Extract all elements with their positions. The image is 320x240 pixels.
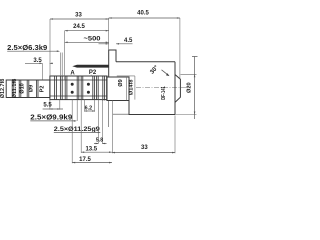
- svg-text:DF-141: DF-141: [161, 86, 167, 100]
- svg-text:40.5: 40.5: [137, 11, 149, 17]
- svg-text:24.5: 24.5: [73, 24, 85, 30]
- step rings: [103, 76, 107, 100]
- svg-text:Ø9: Ø9: [29, 85, 35, 92]
- block body: [129, 62, 175, 115]
- groove 7: [65, 76, 67, 100]
- svg-text:5.5: 5.5: [43, 103, 52, 109]
- svg-text:3.5: 3.5: [33, 58, 42, 64]
- post: [109, 50, 116, 77]
- extension line post left: [108, 18, 110, 50]
- groove 10: [93, 76, 95, 100]
- svg-text:33: 33: [75, 12, 82, 18]
- groove 2: [19, 80, 21, 98]
- extension groove leader: [76, 100, 78, 121]
- dimension 33 bottom: [174, 116, 176, 154]
- svg-text:2.5×Ø6.3k9: 2.5×Ø6.3k9: [7, 45, 47, 52]
- bracket mid diameters: [117, 75, 135, 77]
- svg-text:A: A: [70, 71, 75, 77]
- svg-text:Ø14f8: Ø14f8: [128, 80, 134, 96]
- block top line: [116, 61, 175, 63]
- dimension 24.5: [65, 30, 109, 32]
- groove 9: [81, 76, 83, 100]
- svg-text:33: 33: [141, 145, 148, 151]
- svg-text:~500: ~500: [84, 37, 102, 43]
- svg-text:Ø12.7f8: Ø12.7f8: [0, 79, 6, 99]
- dimension 40.5 top: [109, 17, 180, 19]
- dimension ~500: [65, 41, 109, 43]
- svg-text:Ø10: Ø10: [20, 83, 26, 94]
- dimension 6.2: [85, 100, 95, 112]
- svg-text:P2: P2: [40, 86, 46, 93]
- svg-text:P2: P2: [89, 70, 97, 76]
- boss chamfered: [175, 75, 180, 103]
- groove 5: [55, 76, 57, 100]
- groove 6: [60, 76, 62, 100]
- spring force arrow bar: [72, 65, 108, 68]
- dimension 17.5: [71, 100, 73, 164]
- svg-text:2.5×Ø9.9k9: 2.5×Ø9.9k9: [30, 115, 72, 122]
- cross hole pair 1: [71, 83, 74, 86]
- cross hole pair 2: [87, 83, 90, 86]
- shaft outline left section: [6, 80, 50, 98]
- dimension 5.5: [50, 100, 60, 110]
- svg-text:30°: 30°: [149, 64, 160, 75]
- centerline: [136, 87, 190, 89]
- groove 1: [12, 80, 14, 98]
- svg-text:5.8: 5.8: [96, 137, 103, 143]
- bottom lip line: [108, 100, 129, 127]
- groove 8: [77, 76, 79, 100]
- svg-text:Ø20: Ø20: [187, 82, 193, 93]
- dimension dia 20: [176, 74, 197, 114]
- dimension 13.5: [81, 100, 112, 154]
- svg-text:17.5: 17.5: [79, 157, 91, 163]
- extension lines top-left: [42, 53, 62, 80]
- dimension 3.5: [25, 62, 53, 64]
- medium section: [107, 77, 129, 101]
- groove 11: [97, 76, 99, 100]
- shaft mid inner diameter lines: [50, 80, 107, 96]
- groove 3: [27, 80, 29, 98]
- svg-text:Ø11.1f8: Ø11.1f8: [12, 79, 18, 99]
- dimension 33 top: [50, 18, 109, 20]
- dim line dia9: [125, 77, 127, 100]
- dimension 5.8: [98, 100, 102, 144]
- groove 4: [37, 80, 38, 98]
- dim line dia14f8: [134, 76, 136, 100]
- shaft outline mid section: [50, 76, 107, 100]
- svg-text:Ø9: Ø9: [118, 79, 124, 86]
- svg-text:4.5: 4.5: [124, 38, 133, 44]
- svg-text:6.2: 6.2: [85, 105, 93, 111]
- svg-text:13.5: 13.5: [85, 146, 97, 152]
- dimension 4.5: [99, 43, 133, 45]
